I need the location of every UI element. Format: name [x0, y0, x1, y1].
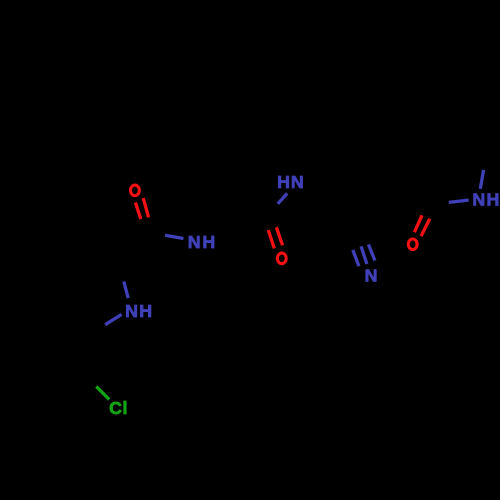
- wire: C#N nitrile triple bond, N-side halves (blue): [353, 245, 375, 267]
- wire: C-N bond half to left amide NH (blue): [165, 235, 183, 238]
- svg-text:H: H: [202, 232, 215, 252]
- node O2 carbonyl oxygen of central amide: [277, 253, 286, 264]
- svg-text:N: N: [125, 301, 138, 321]
- node N5 pyrrole NH: [125, 301, 152, 321]
- node N1 left amide NH: [188, 232, 215, 252]
- node Cl chlorine substituent: [109, 398, 127, 418]
- svg-text:N: N: [291, 172, 304, 192]
- node N4 right amide NH: [472, 190, 499, 210]
- node O1 carbonyl oxygen of left amide: [131, 185, 140, 196]
- wire: N-CH3 bond half above right NH (blue): [480, 170, 483, 189]
- wire: pyrrole ring N-C bond half going down-left (blue): [105, 314, 121, 324]
- node N2 central amide HN: [277, 172, 304, 192]
- node O3 carbonyl oxygen of right amide: [408, 239, 417, 250]
- svg-text:N: N: [472, 190, 485, 210]
- wire: C=O double bond of left amide, O-side halves (red): [135, 198, 148, 219]
- wire: N-C bond half from HN down-left (blue): [278, 193, 287, 203]
- wire: C=O double bond of central amide, O-side halves (red): [268, 227, 282, 248]
- svg-text:H: H: [487, 190, 500, 210]
- wire: C=O double bond of right amide, O-side halves (red): [414, 215, 429, 236]
- svg-text:N: N: [365, 266, 378, 286]
- svg-text:H: H: [139, 301, 152, 321]
- wire: C-Cl bond half (green): [96, 387, 109, 400]
- wire: pyrrole ring N-C bond half going up (blue): [124, 282, 128, 299]
- svg-text:H: H: [277, 172, 290, 192]
- svg-text:C: C: [109, 398, 122, 418]
- svg-text:N: N: [188, 232, 201, 252]
- wire: C-N bond half to right amide NH (blue): [449, 200, 469, 202]
- svg-text:l: l: [123, 398, 128, 418]
